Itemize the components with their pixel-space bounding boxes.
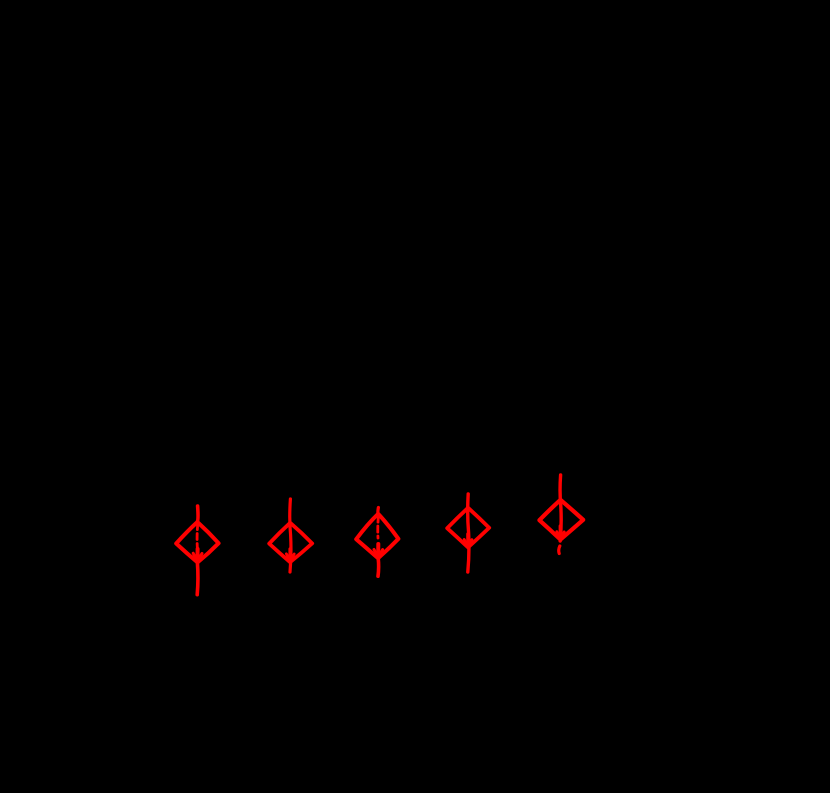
arrow of I1	[196, 524, 200, 549]
wire stub below I5	[559, 546, 560, 554]
wire top of I1	[195, 506, 199, 522]
arrowhead of I4	[464, 539, 472, 546]
arrow of I3	[376, 516, 379, 538]
current source I4	[447, 494, 489, 572]
wire bottom of I3	[376, 558, 380, 576]
current source I3	[356, 508, 398, 577]
arrowhead of I3	[374, 549, 383, 557]
current source I1	[176, 506, 218, 595]
arrowhead of I5	[557, 532, 564, 539]
arrowhead of I2	[286, 554, 294, 561]
current source I2	[269, 499, 312, 572]
current source I5	[539, 475, 583, 554]
wire through I2	[290, 499, 291, 572]
diamond body of I2	[269, 523, 312, 562]
diamond body of I4	[447, 508, 489, 548]
wire through I5	[560, 475, 561, 541]
arrowhead of I1	[193, 553, 202, 561]
wire through I4	[468, 494, 469, 572]
wire bottom of I1	[195, 563, 199, 595]
diamond body of I3	[356, 514, 398, 558]
wire top stub of I3	[376, 508, 380, 515]
diamond body of I5	[539, 500, 583, 540]
diamond body of I1	[176, 522, 218, 562]
